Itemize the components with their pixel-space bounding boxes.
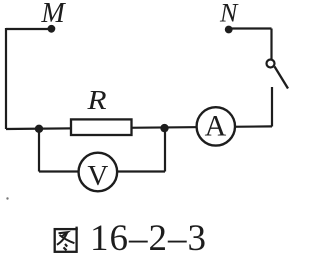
wire: top-left horizontal from left rail to terminal M xyxy=(6,28,49,30)
wire: main middle row (left rail through resistor and ammeter to right rail) xyxy=(6,126,272,129)
wire: voltmeter branch left leg xyxy=(38,129,40,172)
svg-text:V: V xyxy=(87,160,108,192)
wire: top-right horizontal from terminal N to right rail xyxy=(229,27,272,29)
speck artifact xyxy=(6,197,8,199)
wire: voltmeter branch bottom-left horizontal xyxy=(39,170,78,172)
junction dot right (node joining voltmeter branch, right) xyxy=(160,124,168,132)
svg-text:A: A xyxy=(205,110,227,143)
wire: left vertical rail xyxy=(5,28,7,129)
wire: voltmeter branch bottom-right horizontal xyxy=(118,170,165,172)
svg-text:16–2–3: 16–2–3 xyxy=(90,218,207,257)
resistor R body xyxy=(71,119,132,135)
wire: right rail lower segment (switch to ammeter row) xyxy=(271,87,273,127)
terminal M dot xyxy=(48,25,56,33)
switch S blade (open) xyxy=(275,67,289,89)
svg-text:R: R xyxy=(86,86,106,116)
voltmeter U2 circle xyxy=(79,153,118,192)
junction dot left (node joining voltmeter branch, left) xyxy=(35,125,43,133)
terminal N dot xyxy=(225,26,233,34)
svg-text:N: N xyxy=(219,0,239,28)
wire: voltmeter branch right leg xyxy=(164,129,166,172)
switch S pivot circle xyxy=(267,60,275,68)
wire: right rail upper segment (to switch) xyxy=(270,29,272,60)
ammeter U1 circle xyxy=(197,107,235,145)
svg-text:M: M xyxy=(40,0,66,29)
caption character 图 (drawn) xyxy=(55,227,77,252)
